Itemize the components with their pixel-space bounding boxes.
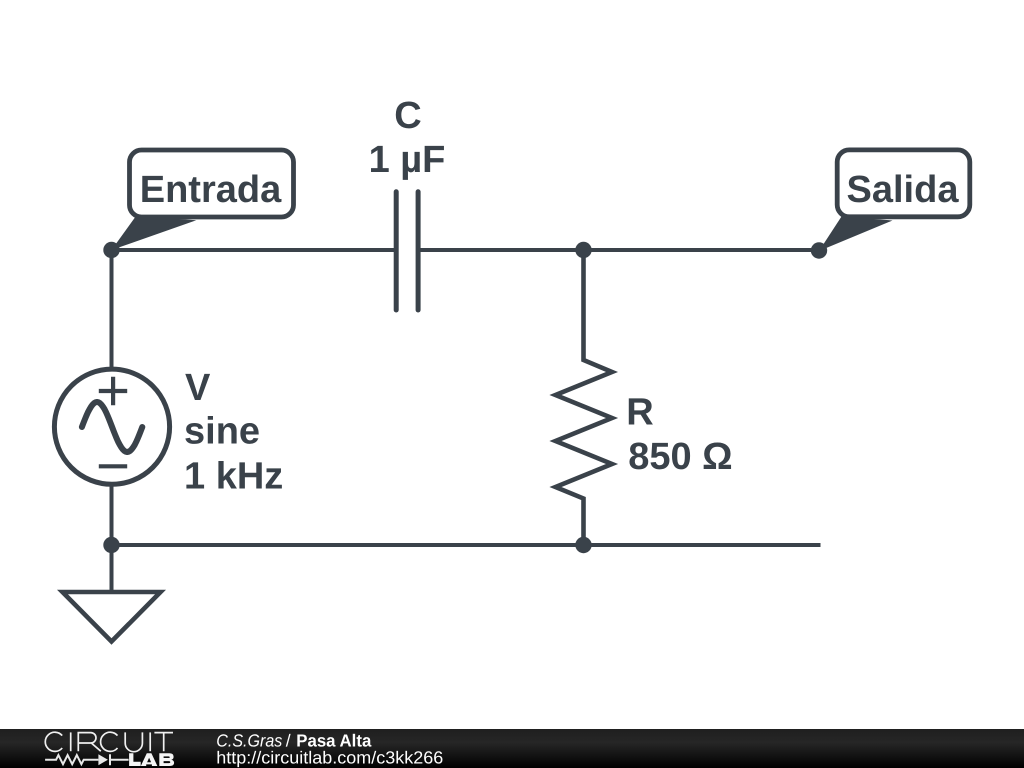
footer author / title xyxy=(216,730,371,750)
svg-text:sine: sine xyxy=(184,411,260,453)
voltage source V label xyxy=(184,367,283,497)
wire top-right (capacitor to output node) xyxy=(418,248,819,252)
footer bar xyxy=(0,729,1024,768)
footer url xyxy=(216,748,443,768)
svg-text:V: V xyxy=(185,367,211,409)
node dot bottom-left junction xyxy=(103,537,119,553)
CircuitLab logo CIRCUIT xyxy=(45,732,173,751)
wire bottom rail xyxy=(112,543,821,547)
CircuitLab logo LAB xyxy=(129,753,174,766)
svg-text:Entrada: Entrada xyxy=(140,169,282,211)
CircuitLab logo squiggle (resistor + diode) xyxy=(45,754,129,765)
node Entrada balloon xyxy=(112,150,294,250)
resistor R label xyxy=(626,391,732,478)
svg-text:850 Ω: 850 Ω xyxy=(628,436,732,478)
svg-text:Salida: Salida xyxy=(847,169,960,211)
svg-text:C: C xyxy=(394,95,421,137)
node dot output (Salida) xyxy=(811,242,827,258)
node dot junction cap/resistor xyxy=(575,242,591,258)
svg-text:http://circuitlab.com/c3kk266: http://circuitlab.com/c3kk266 xyxy=(216,748,443,768)
voltage source sine wave xyxy=(82,402,142,452)
node dot bottom-mid junction xyxy=(575,537,591,553)
resistor R xyxy=(556,250,613,545)
wire left vertical (input node to source V) xyxy=(110,250,114,367)
node dot input (Entrada) xyxy=(103,242,119,258)
wire top-left (input node to capacitor) xyxy=(112,248,397,252)
node Salida balloon xyxy=(819,150,970,251)
voltage source minus sign xyxy=(99,464,127,468)
svg-text:R: R xyxy=(626,391,653,433)
svg-text:1 kHz: 1 kHz xyxy=(184,456,283,498)
voltage source V (circle) xyxy=(54,369,169,484)
svg-text:1 µF: 1 µF xyxy=(369,139,446,181)
capacitor C xyxy=(396,192,418,310)
wire source V to ground rail xyxy=(110,486,114,592)
capacitor C label xyxy=(369,95,446,181)
ground xyxy=(63,592,161,642)
voltage source plus sign xyxy=(99,377,127,405)
